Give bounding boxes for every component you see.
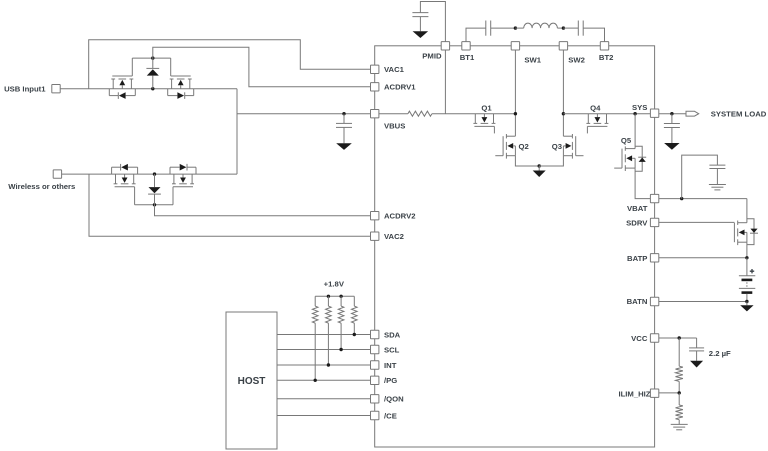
wire HOST /PG [277, 379, 371, 381]
node SW2 top junction [562, 26, 565, 29]
pin VBAT [627, 194, 659, 213]
transistor Q1 [473, 104, 495, 134]
node pull-up R5 junction [327, 363, 330, 366]
svg-text:INT: INT [384, 361, 397, 370]
terminal SYSTEM LOAD flag [686, 109, 767, 118]
wire ACDRV2 drop [155, 205, 371, 216]
diode D2 (pair2 gate clamp) [148, 174, 161, 205]
wire HOST SCL [277, 349, 371, 351]
node pull-up R6 junction [339, 348, 342, 351]
node SW2 mid junction [562, 112, 565, 115]
wire VBAT out [659, 198, 747, 200]
capacitor C1 (PMID bypass) [412, 13, 428, 32]
wire CB2 to BT2 riser [583, 28, 604, 41]
svg-text:USB Input1: USB Input1 [4, 84, 46, 93]
transistor Q3 [552, 134, 584, 159]
transistor QC (input FET pair2 left) [112, 164, 138, 205]
pin SW2 [559, 42, 585, 65]
pin BATN [627, 297, 659, 306]
svg-text:SYSTEM LOAD: SYSTEM LOAD [711, 109, 767, 118]
inductor L1 [515, 23, 563, 28]
node battery bottom junction [745, 300, 748, 303]
node pair2 source junction [153, 172, 156, 175]
capacitor CB1 (BT1-SW1 flying cap) [486, 21, 491, 36]
wire CB1 to SW1 node [491, 27, 516, 29]
wire HOST /QON [277, 398, 371, 400]
svg-text:BT1: BT1 [460, 53, 475, 62]
wire Q3 source to gnd [539, 156, 563, 166]
wire pair1 gate bus [132, 57, 170, 59]
resistor R1 (VBUS sense) [408, 111, 432, 116]
svg-text:VAC1: VAC1 [384, 65, 405, 74]
node VCC junction [678, 336, 681, 339]
wire VAC2 loop [89, 174, 371, 236]
wire USB input [60, 88, 237, 90]
svg-text:2.2 µF: 2.2 µF [709, 349, 731, 358]
svg-text:/CE: /CE [384, 411, 397, 420]
label 2.2 uF [709, 349, 731, 358]
wire R1 to SW1 node [432, 113, 516, 115]
svg-text:BT2: BT2 [599, 53, 614, 62]
battery BT1 cell [739, 258, 755, 302]
svg-text:ACDRV2: ACDRV2 [384, 211, 415, 220]
pin SDA [371, 330, 401, 339]
wire BATP out [659, 257, 747, 259]
op IC body outline U1 [375, 46, 655, 447]
wire +1.8V rail [315, 295, 354, 297]
node pull-up R7 junction [353, 333, 356, 336]
pin SCL [371, 345, 400, 354]
wire SW2 to Q4 to SYS [563, 113, 650, 115]
pin VCC [631, 334, 659, 343]
terminal USB Input1 [4, 84, 60, 93]
node pull-up R4 junction [314, 379, 317, 382]
resistor R6 (pull-up) [338, 296, 344, 349]
node rail junction a [327, 295, 330, 298]
svg-text:Q5: Q5 [621, 136, 632, 145]
svg-text:SYS: SYS [632, 103, 647, 112]
pin /CE [371, 411, 397, 420]
wire PMID top loop [420, 2, 445, 42]
svg-text:/QON: /QON [384, 395, 404, 404]
wire BATN out [659, 301, 747, 303]
pin BT2 [599, 42, 614, 63]
pin VAC2 [371, 232, 404, 241]
ground (ILIM, earth) [671, 424, 688, 429]
node pair2 gate junction [153, 203, 156, 206]
svg-text:HOST: HOST [238, 376, 266, 387]
wire ILIM out [659, 392, 679, 394]
capacitor C4 (VBAT) [682, 155, 726, 199]
wire pair2 gate bus [135, 204, 173, 206]
ground (battery) [740, 302, 753, 312]
wire VCC out [659, 337, 697, 339]
svg-text:ACDRV1: ACDRV1 [384, 83, 416, 92]
wire SYS out [659, 113, 686, 115]
wire HOST INT [277, 364, 371, 366]
ground (Q2-Q3 source) [533, 166, 546, 177]
resistor R2 (VCC-ILIM) [676, 338, 683, 393]
pin ILIM_HIZ [618, 389, 658, 398]
node VBUS input cap junction [342, 112, 345, 115]
node SW1 mid junction [514, 112, 517, 115]
wire HOST SDA [277, 334, 371, 336]
svg-text:+1.8V: +1.8V [324, 280, 345, 289]
wire Q5 source to VBAT [635, 168, 650, 199]
pin INT [371, 361, 397, 370]
node VBAT cap junction [680, 197, 683, 200]
svg-text:Wireless or others: Wireless or others [8, 182, 75, 191]
transistor QB (input FET pair1 right) [168, 58, 194, 99]
pin ACDRV2 [371, 211, 416, 220]
node pair1 gate junction [151, 56, 154, 59]
capacitor C2 (VBUS input) [336, 114, 352, 144]
svg-text:BATP: BATP [627, 254, 647, 263]
ground (PMID cap) [413, 31, 429, 38]
svg-text:VBAT: VBAT [627, 204, 648, 213]
wire SDRV to gate [659, 221, 735, 223]
svg-text:SCL: SCL [384, 345, 400, 354]
label +1.8V rail [324, 280, 345, 289]
capacitor C5 (VCC 2.2uF) [689, 338, 704, 361]
pin VAC1 [371, 65, 405, 74]
diode D1 (pair1 gate clamp) [146, 58, 159, 89]
pin SDRV [626, 218, 659, 227]
wire SW2 riser into IC [562, 50, 564, 136]
svg-text:VAC2: VAC2 [384, 232, 404, 241]
transistor Q6 (battery FET) [734, 199, 747, 246]
diode Q5 body [635, 146, 646, 171]
diode Q6 body [747, 219, 758, 245]
transistor Q4 [586, 104, 608, 134]
wire Wireless input [62, 173, 237, 175]
ground (VBAT cap, earth) [709, 185, 726, 190]
wire Q2 source to gnd [515, 156, 539, 166]
pin BATP [627, 254, 659, 263]
resistor R7 (pull-up) [352, 296, 358, 334]
capacitor C3 (SYS) [664, 114, 680, 143]
node SW1 top junction [514, 26, 517, 29]
pin /PG [371, 376, 398, 385]
wire Q5 drain riser [634, 114, 636, 149]
node battery top junction [745, 256, 748, 259]
svg-text:SW2: SW2 [568, 55, 585, 64]
svg-text:Q2: Q2 [519, 142, 529, 151]
node pair1 source junction [151, 87, 154, 90]
transistor QA (input FET pair1 left) [109, 58, 135, 99]
label battery plus [750, 269, 754, 273]
ground (VCC cap) [690, 361, 703, 368]
svg-text:Q3: Q3 [552, 142, 562, 151]
ground (SYS cap) [664, 143, 680, 150]
resistor R3 (ILIM-GND) [676, 393, 683, 424]
pin SW1 [511, 42, 542, 65]
node SYS cap junction [670, 112, 673, 115]
resistor R4 (pull-up) [312, 296, 318, 380]
node ILIM junction [678, 391, 681, 394]
resistor R5 (pull-up) [326, 296, 332, 365]
wire PMID internal drop [444, 50, 446, 114]
transistor QD (input FET pair2 right) [170, 164, 196, 205]
pin PMID [422, 42, 449, 61]
pin SYS [632, 103, 659, 117]
pin BT1 [460, 42, 475, 63]
wire VAC1 loop [89, 40, 371, 89]
block HOST [226, 312, 277, 449]
capacitor CB2 (SW2-BT2 flying cap) [578, 21, 583, 36]
svg-text:VCC: VCC [631, 334, 648, 343]
svg-text:Q4: Q4 [590, 104, 601, 113]
svg-text:SDA: SDA [384, 330, 401, 339]
transistor Q5 [614, 136, 635, 171]
wire SW2 node to CB2 [563, 27, 578, 29]
wire Q6 source to BATP [746, 242, 748, 258]
wire VBUS internal [379, 113, 408, 115]
ground (VBUS cap) [336, 143, 352, 150]
terminal Wireless input [8, 170, 75, 191]
svg-text:PMID: PMID [422, 52, 442, 61]
wire input common riser [236, 89, 238, 174]
wire SW1 riser into IC [514, 50, 516, 136]
svg-text:SW1: SW1 [524, 55, 541, 64]
wire ACDRV1 loop [153, 47, 371, 87]
node Q2-Q3 gnd junction [538, 164, 541, 167]
svg-text:Q1: Q1 [481, 104, 492, 113]
svg-text:/PG: /PG [384, 376, 397, 385]
node rail junction b [339, 295, 342, 298]
pin VBUS [371, 110, 406, 131]
svg-text:VBUS: VBUS [384, 121, 405, 130]
wire VBUS from inputs [237, 113, 371, 115]
svg-text:ILIM_HIZ: ILIM_HIZ [618, 389, 650, 398]
pin ACDRV1 [371, 83, 417, 92]
pin /QON [371, 395, 405, 404]
wire BT1 riser [466, 28, 486, 41]
node Q5 branch junction [633, 112, 636, 115]
transistor Q2 [495, 134, 528, 159]
wire HOST /CE [277, 415, 371, 417]
svg-text:SDRV: SDRV [626, 218, 648, 227]
svg-text:BATN: BATN [627, 297, 648, 306]
